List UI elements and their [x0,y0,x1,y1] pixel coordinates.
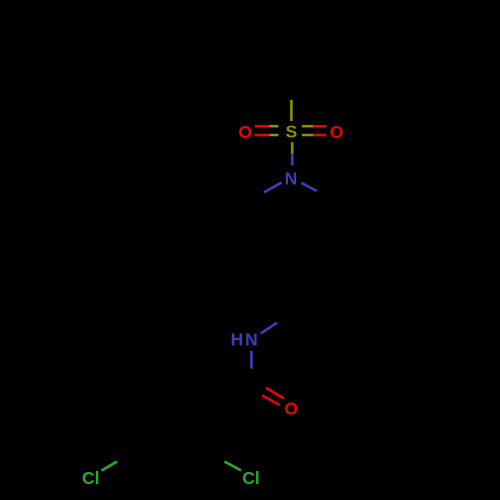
svg-text:H: H [231,330,244,350]
svg-text:O: O [284,399,298,419]
svg-text:O: O [238,122,252,142]
svg-text:Cl: Cl [242,468,260,488]
svg-text:N: N [245,330,258,350]
svg-text:S: S [285,122,297,142]
svg-text:Cl: Cl [82,468,100,488]
svg-text:O: O [330,122,344,142]
svg-text:N: N [285,168,298,188]
